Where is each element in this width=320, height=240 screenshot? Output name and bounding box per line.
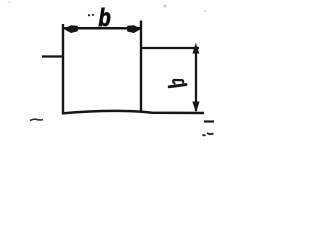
top extension line for h <box>141 47 199 49</box>
rectangle section: left edge (extends up as extension line) <box>62 24 64 114</box>
svg-text:b: b <box>99 4 111 32</box>
arrowhead bottom of h dimension <box>192 102 199 113</box>
arrowhead left of b dimension <box>63 25 78 33</box>
rectangle bottom edge + right extension line for h (slightly wavy scan line) <box>62 111 204 114</box>
small dash mark right, below h extension <box>204 120 214 122</box>
faint smudge top-left corner <box>8 1 11 4</box>
two small dots left of b <box>88 14 90 16</box>
faint scan dot right of b dimension <box>204 10 207 13</box>
small squiggle mark bottom-right <box>203 134 206 137</box>
dimension line h (vertical) <box>195 46 197 111</box>
label h rotated: arch hook left bend <box>173 80 174 83</box>
arrowhead top of h dimension <box>192 43 199 54</box>
arrowhead right of b dimension <box>127 25 142 33</box>
label h rotated: arch hook top bar <box>174 79 183 81</box>
dimension line b (doubles as section top edge) <box>64 27 140 30</box>
faint scan dot top area <box>163 4 166 7</box>
label h rotated: arch hook right tick <box>181 80 184 82</box>
left stub line on rectangle <box>42 55 64 57</box>
rectangle section: right edge (extends up as extension line) <box>140 21 142 113</box>
label h (rotated, drawn as paths: stem stroke <box>169 85 186 87</box>
small dash mark bottom-left <box>30 119 43 120</box>
